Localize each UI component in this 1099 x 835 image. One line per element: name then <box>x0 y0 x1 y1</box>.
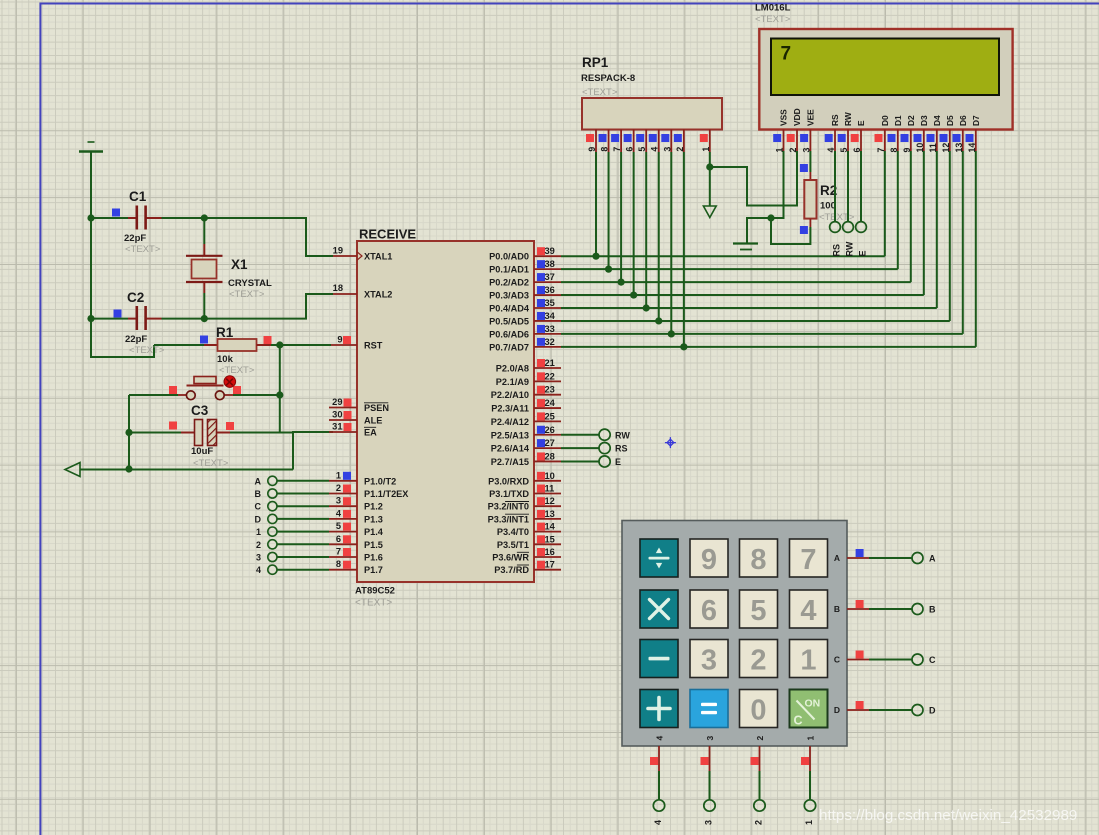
svg-text:P3.7/RD: P3.7/RD <box>494 565 529 575</box>
ground symbol <box>733 242 758 244</box>
svg-text:15: 15 <box>545 534 555 544</box>
svg-text:25: 25 <box>545 411 555 421</box>
svg-text:B: B <box>929 605 936 615</box>
wire P2.5 to RW terminal <box>561 434 599 436</box>
wire P0.6 row <box>561 333 963 335</box>
keypad button 6 <box>690 590 728 628</box>
wire LCD RS down <box>834 151 836 222</box>
MCU right pin P2.4 pin 25 <box>534 420 561 422</box>
svg-text:ALE: ALE <box>364 416 382 426</box>
LCD pin 1 VSS <box>783 130 785 152</box>
MCU U1 AT89C52 body <box>357 241 534 582</box>
wire branch to VDD <box>710 151 797 206</box>
svg-text:5: 5 <box>336 521 341 531</box>
MCU left pin P1.0 pin 1 <box>329 480 357 482</box>
wire P0.2 row <box>561 281 911 283</box>
svg-text:P2.3/A11: P2.3/A11 <box>491 404 529 414</box>
wire net C to P1.2 <box>277 505 329 507</box>
power terminal VCC <box>88 141 95 143</box>
svg-text:P1.6: P1.6 <box>364 553 383 563</box>
svg-text:3: 3 <box>705 736 715 741</box>
wire RP1 pin 7 to P0.2 <box>620 152 622 282</box>
svg-text:P1.1/T2EX: P1.1/T2EX <box>364 489 409 499</box>
svg-text:VSS: VSS <box>779 109 789 126</box>
wire left vertical <box>128 395 130 469</box>
wire C1 row left <box>91 217 128 219</box>
terminal ground arrow <box>703 206 716 218</box>
svg-text:<TEXT>: <TEXT> <box>582 87 618 98</box>
MCU right pin P2.2 pin 23 <box>534 394 561 396</box>
svg-text:RW: RW <box>615 430 630 440</box>
node C2-right <box>201 315 208 322</box>
svg-text:C3: C3 <box>191 403 209 418</box>
svg-text:36: 36 <box>545 285 555 295</box>
svg-text:100: 100 <box>820 201 836 212</box>
MCU right pin P0.6 pin 33 <box>534 333 561 335</box>
svg-text:17: 17 <box>545 560 555 570</box>
svg-text:4: 4 <box>256 565 261 575</box>
svg-text:<TEXT>: <TEXT> <box>755 14 791 25</box>
wire net D to P1.3 <box>277 518 329 520</box>
wire RP1 pin1 down <box>709 152 711 206</box>
svg-text:<TEXT>: <TEXT> <box>219 365 255 376</box>
MCU right pin P2.6 pin 27 <box>534 447 561 449</box>
svg-text:8: 8 <box>600 147 610 152</box>
svg-text:P0.5/AD5: P0.5/AD5 <box>489 316 529 326</box>
svg-text:P1.5: P1.5 <box>364 540 383 550</box>
terminal keypad C <box>912 654 923 665</box>
wire RP1 pin 6 to P0.3 <box>633 152 635 295</box>
wire LCD D7 to P0.7 <box>975 151 977 347</box>
svg-text:5: 5 <box>637 147 647 152</box>
terminal 1 <box>268 527 277 536</box>
svg-text:1: 1 <box>336 470 341 480</box>
svg-text:RS: RS <box>615 444 628 454</box>
crystal X1 <box>203 244 205 256</box>
svg-text:P0.1/AD1: P0.1/AD1 <box>489 265 529 275</box>
LCD LM016L body <box>759 29 1012 130</box>
svg-text:0: 0 <box>750 695 766 727</box>
MCU right pin P3.3 pin 13 <box>534 518 561 520</box>
svg-text:6: 6 <box>336 534 341 544</box>
keypad button ON/C <box>790 690 828 728</box>
RP1 pin 6 <box>633 130 635 153</box>
terminal C <box>268 502 277 511</box>
LCD screen <box>771 39 999 96</box>
svg-text:A: A <box>834 553 840 563</box>
svg-text:33: 33 <box>545 324 555 334</box>
wire P2.6 to RS terminal <box>561 447 599 449</box>
wire RST vertical <box>279 345 281 433</box>
wire to R1 <box>154 344 204 346</box>
terminal keypad column 1 <box>804 800 815 811</box>
LCD pin 12 D5 <box>949 130 951 152</box>
svg-text:7: 7 <box>781 44 792 65</box>
terminal keypad column 2 <box>754 800 765 811</box>
svg-text:ON: ON <box>805 698 821 710</box>
svg-text:31: 31 <box>332 422 342 432</box>
terminal A <box>268 476 277 485</box>
svg-text:D0: D0 <box>880 115 890 126</box>
svg-text:D7: D7 <box>971 115 981 126</box>
wire net 4 to P1.7 <box>277 569 329 571</box>
keypad button minus <box>640 640 678 678</box>
wire P0.0 row <box>561 255 885 257</box>
keypad button 4 <box>790 590 828 628</box>
MCU right pin P0.4 pin 35 <box>534 307 561 309</box>
node C1-right <box>201 214 208 221</box>
keypad bottom pin 1 <box>809 746 811 771</box>
keypad button 7 <box>790 539 828 577</box>
wire LCD D6 to P0.6 <box>962 151 964 334</box>
svg-text:3: 3 <box>701 645 717 677</box>
capacitor C3 polarized <box>169 422 177 430</box>
svg-text:10: 10 <box>545 471 555 481</box>
MCU right pin P2.3 pin 24 <box>534 407 561 409</box>
svg-text:E: E <box>615 457 621 467</box>
MCU left pin P1.5 pin 6 <box>329 543 357 545</box>
svg-text:7: 7 <box>612 147 622 152</box>
wire keypad B to terminal <box>869 608 912 610</box>
terminal RW lcd <box>843 222 854 233</box>
svg-text:EA: EA <box>364 428 377 438</box>
svg-text:P1.0/T2: P1.0/T2 <box>364 476 396 486</box>
node vss-r2 <box>767 214 774 221</box>
svg-text:18: 18 <box>333 283 343 293</box>
svg-text:C: C <box>929 655 936 665</box>
MCU right pin P3.5 pin 15 <box>534 543 561 545</box>
LCD pin 11 D4 <box>936 130 938 152</box>
svg-text:AT89C52: AT89C52 <box>355 586 395 597</box>
wire LCD E down <box>860 151 862 222</box>
LCD pin 9 D2 <box>910 130 912 152</box>
svg-text:2: 2 <box>788 148 798 153</box>
keypad button 8 <box>740 539 778 577</box>
MCU right pin P3.7 pin 17 <box>534 569 561 571</box>
svg-text:2: 2 <box>256 540 261 550</box>
svg-text:9: 9 <box>587 147 597 152</box>
svg-text:A: A <box>255 476 262 486</box>
node C2-left <box>87 315 94 322</box>
keypad button 1 <box>790 640 828 678</box>
node C1-left <box>87 214 94 221</box>
LCD pin 7 D0 <box>884 130 886 152</box>
wire LCD D0 to P0.0 <box>884 151 886 256</box>
wire bottom row <box>80 469 293 471</box>
svg-text:22pF: 22pF <box>125 334 147 345</box>
wire keypad column 1 <box>809 771 811 800</box>
node rp1 branch <box>706 163 713 170</box>
svg-text:2: 2 <box>754 820 764 825</box>
svg-text:13: 13 <box>545 509 555 519</box>
wire button row <box>129 394 178 396</box>
wire C3 row <box>129 432 181 434</box>
svg-text:4: 4 <box>650 147 660 152</box>
RP1 pin 8 <box>608 130 610 153</box>
terminal E <box>599 456 610 467</box>
svg-text:1: 1 <box>775 148 785 153</box>
svg-text:3: 3 <box>336 496 341 506</box>
MCU left pin P1.7 pin 8 <box>329 569 357 571</box>
svg-text:C2: C2 <box>127 290 144 305</box>
wire VSS down <box>747 151 784 244</box>
push button <box>169 386 177 394</box>
svg-text:3: 3 <box>704 820 714 825</box>
svg-text:R1: R1 <box>216 325 234 340</box>
svg-text:D: D <box>255 514 262 524</box>
RP1 pin 3 <box>670 130 672 153</box>
MCU right pin P0.3 pin 36 <box>534 294 561 296</box>
svg-text:XTAL1: XTAL1 <box>364 252 392 262</box>
wire P0.4 row <box>561 307 937 309</box>
svg-text:P2.0/A8: P2.0/A8 <box>496 364 529 374</box>
svg-text:P3.0/RXD: P3.0/RXD <box>488 476 529 486</box>
keypad button 3 <box>690 640 728 678</box>
svg-text:<TEXT>: <TEXT> <box>229 289 265 300</box>
svg-text:https://blog.csdn.net/weixin_4: https://blog.csdn.net/weixin_42532989 <box>819 807 1077 824</box>
wire button to vertical <box>233 394 280 396</box>
svg-text:E: E <box>856 120 866 126</box>
svg-text:P2.2/A10: P2.2/A10 <box>491 390 529 400</box>
MCU right pin P0.7 pin 32 <box>534 346 561 348</box>
svg-text:14: 14 <box>545 522 556 532</box>
node R1-RST <box>276 341 283 348</box>
terminal keypad B <box>912 604 923 615</box>
MCU left pin P1.2 pin 3 <box>329 505 357 507</box>
LCD pin 6 E <box>860 130 862 152</box>
wire net 2 to P1.5 <box>277 543 329 545</box>
svg-text:21: 21 <box>545 358 555 368</box>
capacitor C1 <box>112 209 120 217</box>
svg-text:12: 12 <box>545 496 555 506</box>
svg-text:D: D <box>929 706 936 716</box>
wire crystal top <box>203 218 205 244</box>
svg-text:P2.7/A15: P2.7/A15 <box>491 457 529 467</box>
LCD pin 3 VEE <box>809 130 811 152</box>
terminal keypad column 3 <box>704 800 715 811</box>
wire C1 to XTAL1 <box>162 218 334 256</box>
svg-text:RS: RS <box>830 114 840 126</box>
svg-text:P1.7: P1.7 <box>364 565 383 575</box>
svg-text:P2.4/A12: P2.4/A12 <box>491 417 529 427</box>
wire keypad column 2 <box>759 771 761 800</box>
svg-text:X1: X1 <box>231 257 248 272</box>
keypad button 0 <box>740 690 778 728</box>
svg-text:P2.5/A13: P2.5/A13 <box>491 430 529 440</box>
MCU left pin XTAL1 pin 19 <box>333 255 357 257</box>
wire RP1 pin 9 to P0.0 <box>595 152 597 256</box>
wire LCD D4 to P0.4 <box>936 151 938 308</box>
svg-text:P3.5/T1: P3.5/T1 <box>497 540 529 550</box>
svg-text:P3.3/INT1: P3.3/INT1 <box>488 514 529 524</box>
terminal keypad A <box>912 553 923 564</box>
wire net 3 to P1.6 <box>277 556 329 558</box>
svg-text:3: 3 <box>256 553 261 563</box>
svg-text:D1: D1 <box>893 115 903 126</box>
svg-text:A: A <box>929 554 936 564</box>
RP1 pin 4 <box>658 130 660 153</box>
RP1 pin 9 <box>595 130 597 153</box>
node button-right <box>276 391 283 398</box>
terminal 2 <box>268 540 277 549</box>
MCU left pin P1.1 pin 2 <box>329 493 357 495</box>
svg-text:RW: RW <box>845 241 855 256</box>
svg-text:D3: D3 <box>919 115 929 126</box>
svg-text:C: C <box>794 714 803 728</box>
svg-text:5: 5 <box>750 595 766 627</box>
resistor pack RP1 body <box>582 98 722 130</box>
keypad body <box>622 521 847 747</box>
wire net A to P1.0 <box>277 480 329 482</box>
svg-text:VEE: VEE <box>806 109 816 126</box>
svg-text:9: 9 <box>337 335 342 345</box>
svg-text:9: 9 <box>701 544 717 576</box>
LCD pin 10 D3 <box>923 130 925 152</box>
svg-text:P0.4/AD4: P0.4/AD4 <box>489 304 530 314</box>
resistor R2 <box>809 151 811 172</box>
terminal RS <box>599 443 610 454</box>
MCU right pin P3.4 pin 14 <box>534 531 561 533</box>
MCU right pin P3.6 pin 16 <box>534 556 561 558</box>
wire RP1 pin 2 to P0.7 <box>683 152 685 347</box>
svg-text:4: 4 <box>800 595 816 627</box>
MCU left pin ALE pin 30 <box>329 419 357 421</box>
wire P0.1 row <box>561 268 898 270</box>
keypad bottom pin 4 <box>658 746 660 771</box>
keypad bottom pin 2 <box>759 746 761 771</box>
svg-text:RST: RST <box>364 341 383 351</box>
svg-text:34: 34 <box>545 311 556 321</box>
keypad button divide <box>640 539 678 577</box>
node C3-left <box>125 429 132 436</box>
svg-text:7: 7 <box>336 547 341 557</box>
terminal 3 <box>268 552 277 561</box>
wire P0.5 row <box>561 320 950 322</box>
wire P0.7 row <box>561 346 976 348</box>
wire P0.3 row <box>561 294 924 296</box>
LCD pin 13 D6 <box>962 130 964 152</box>
svg-text:1: 1 <box>806 736 816 741</box>
wire RP1 pin 5 to P0.4 <box>645 152 647 308</box>
svg-text:2: 2 <box>675 147 685 152</box>
svg-text:35: 35 <box>545 298 555 308</box>
svg-text:29: 29 <box>332 397 342 407</box>
LCD pin 14 D7 <box>975 130 977 152</box>
wire C2 row left <box>91 318 128 320</box>
svg-text:VDD: VDD <box>792 108 802 126</box>
svg-text:P0.3/AD3: P0.3/AD3 <box>489 291 529 301</box>
svg-text:2: 2 <box>750 645 766 677</box>
keypad right pin D <box>847 709 869 711</box>
terminal B <box>268 489 277 498</box>
svg-text:3: 3 <box>801 148 811 153</box>
MCU right pin P2.0 pin 21 <box>534 367 561 369</box>
wire keypad A to terminal <box>869 557 912 559</box>
wire crystal bottom <box>203 293 205 319</box>
svg-text:RP1: RP1 <box>582 55 609 70</box>
svg-text:P3.2/INT0: P3.2/INT0 <box>488 502 529 512</box>
MCU left pin RST pin 9 <box>331 344 357 346</box>
RP1 pin 7 <box>620 130 622 153</box>
svg-text:<TEXT>: <TEXT> <box>125 244 161 255</box>
svg-text:1: 1 <box>256 527 261 537</box>
terminal keypad D <box>912 705 923 716</box>
svg-text:<TEXT>: <TEXT> <box>193 458 229 469</box>
svg-text:B: B <box>834 604 840 614</box>
svg-text:2: 2 <box>336 483 341 493</box>
svg-text:16: 16 <box>545 547 555 557</box>
wire LCD D2 to P0.2 <box>910 151 912 282</box>
keypad bottom pin 3 <box>709 746 711 771</box>
terminal D <box>268 514 277 523</box>
svg-text:22: 22 <box>545 371 555 381</box>
svg-text:P2.1/A9: P2.1/A9 <box>496 377 529 387</box>
resistor R1 <box>200 336 208 344</box>
wire net B to P1.1 <box>277 493 329 495</box>
svg-text:P3.6/WR: P3.6/WR <box>492 553 529 563</box>
svg-text:P0.0/AD0: P0.0/AD0 <box>489 252 529 262</box>
wire keypad C to terminal <box>869 659 912 661</box>
svg-text:30: 30 <box>332 410 342 420</box>
svg-text:D6: D6 <box>958 115 968 126</box>
svg-text:10k: 10k <box>217 354 234 365</box>
MCU left pin P1.4 pin 5 <box>329 531 357 533</box>
svg-text:P3.1/TXD: P3.1/TXD <box>489 489 529 499</box>
MCU right pin P2.1 pin 22 <box>534 380 561 382</box>
svg-text:4: 4 <box>655 736 665 741</box>
svg-text:6: 6 <box>701 595 717 627</box>
wire RP1 pin 8 to P0.1 <box>608 152 610 269</box>
LCD pin 8 D1 <box>897 130 899 152</box>
svg-text:P1.2: P1.2 <box>364 502 383 512</box>
MCU left pin EA pin 31 <box>329 431 357 433</box>
svg-text:RS: RS <box>832 244 842 257</box>
svg-text:D2: D2 <box>906 115 916 126</box>
svg-text:E: E <box>858 250 868 256</box>
RP1 pin 1 <box>709 130 711 153</box>
wire LCD RW down <box>847 151 849 222</box>
terminal 4 <box>268 565 277 574</box>
MCU left pin P1.6 pin 7 <box>329 556 357 558</box>
svg-text:1: 1 <box>800 645 816 677</box>
wire LCD D3 to P0.3 <box>923 151 925 295</box>
svg-text:11: 11 <box>545 484 555 494</box>
svg-text:23: 23 <box>545 385 555 395</box>
svg-text:8: 8 <box>336 559 341 569</box>
svg-text:P0.6/AD6: P0.6/AD6 <box>489 329 529 339</box>
svg-text:D4: D4 <box>932 115 942 126</box>
svg-text:RESPACK-8: RESPACK-8 <box>581 73 635 84</box>
svg-text:6: 6 <box>625 147 635 152</box>
MCU right pin P3.0 pin 10 <box>534 480 561 482</box>
RP1 pin 2 <box>683 130 685 153</box>
MCU right pin P0.5 pin 34 <box>534 320 561 322</box>
MCU right pin P0.2 pin 37 <box>534 281 561 283</box>
svg-text:19: 19 <box>333 246 343 256</box>
svg-text:D5: D5 <box>945 115 955 126</box>
svg-text:4: 4 <box>653 820 663 825</box>
LCD pin 4 RS <box>834 130 836 152</box>
wire RP1 pin 4 to P0.5 <box>658 152 660 321</box>
svg-text:P1.3: P1.3 <box>364 514 383 524</box>
svg-text:C: C <box>834 655 840 665</box>
MCU right pin P0.1 pin 38 <box>534 268 561 270</box>
keypad button 9 <box>690 539 728 577</box>
MCU left pin XTAL2 pin 18 <box>333 293 357 295</box>
svg-text:39: 39 <box>545 246 555 256</box>
keypad button 2 <box>740 640 778 678</box>
svg-text:8: 8 <box>750 544 766 576</box>
